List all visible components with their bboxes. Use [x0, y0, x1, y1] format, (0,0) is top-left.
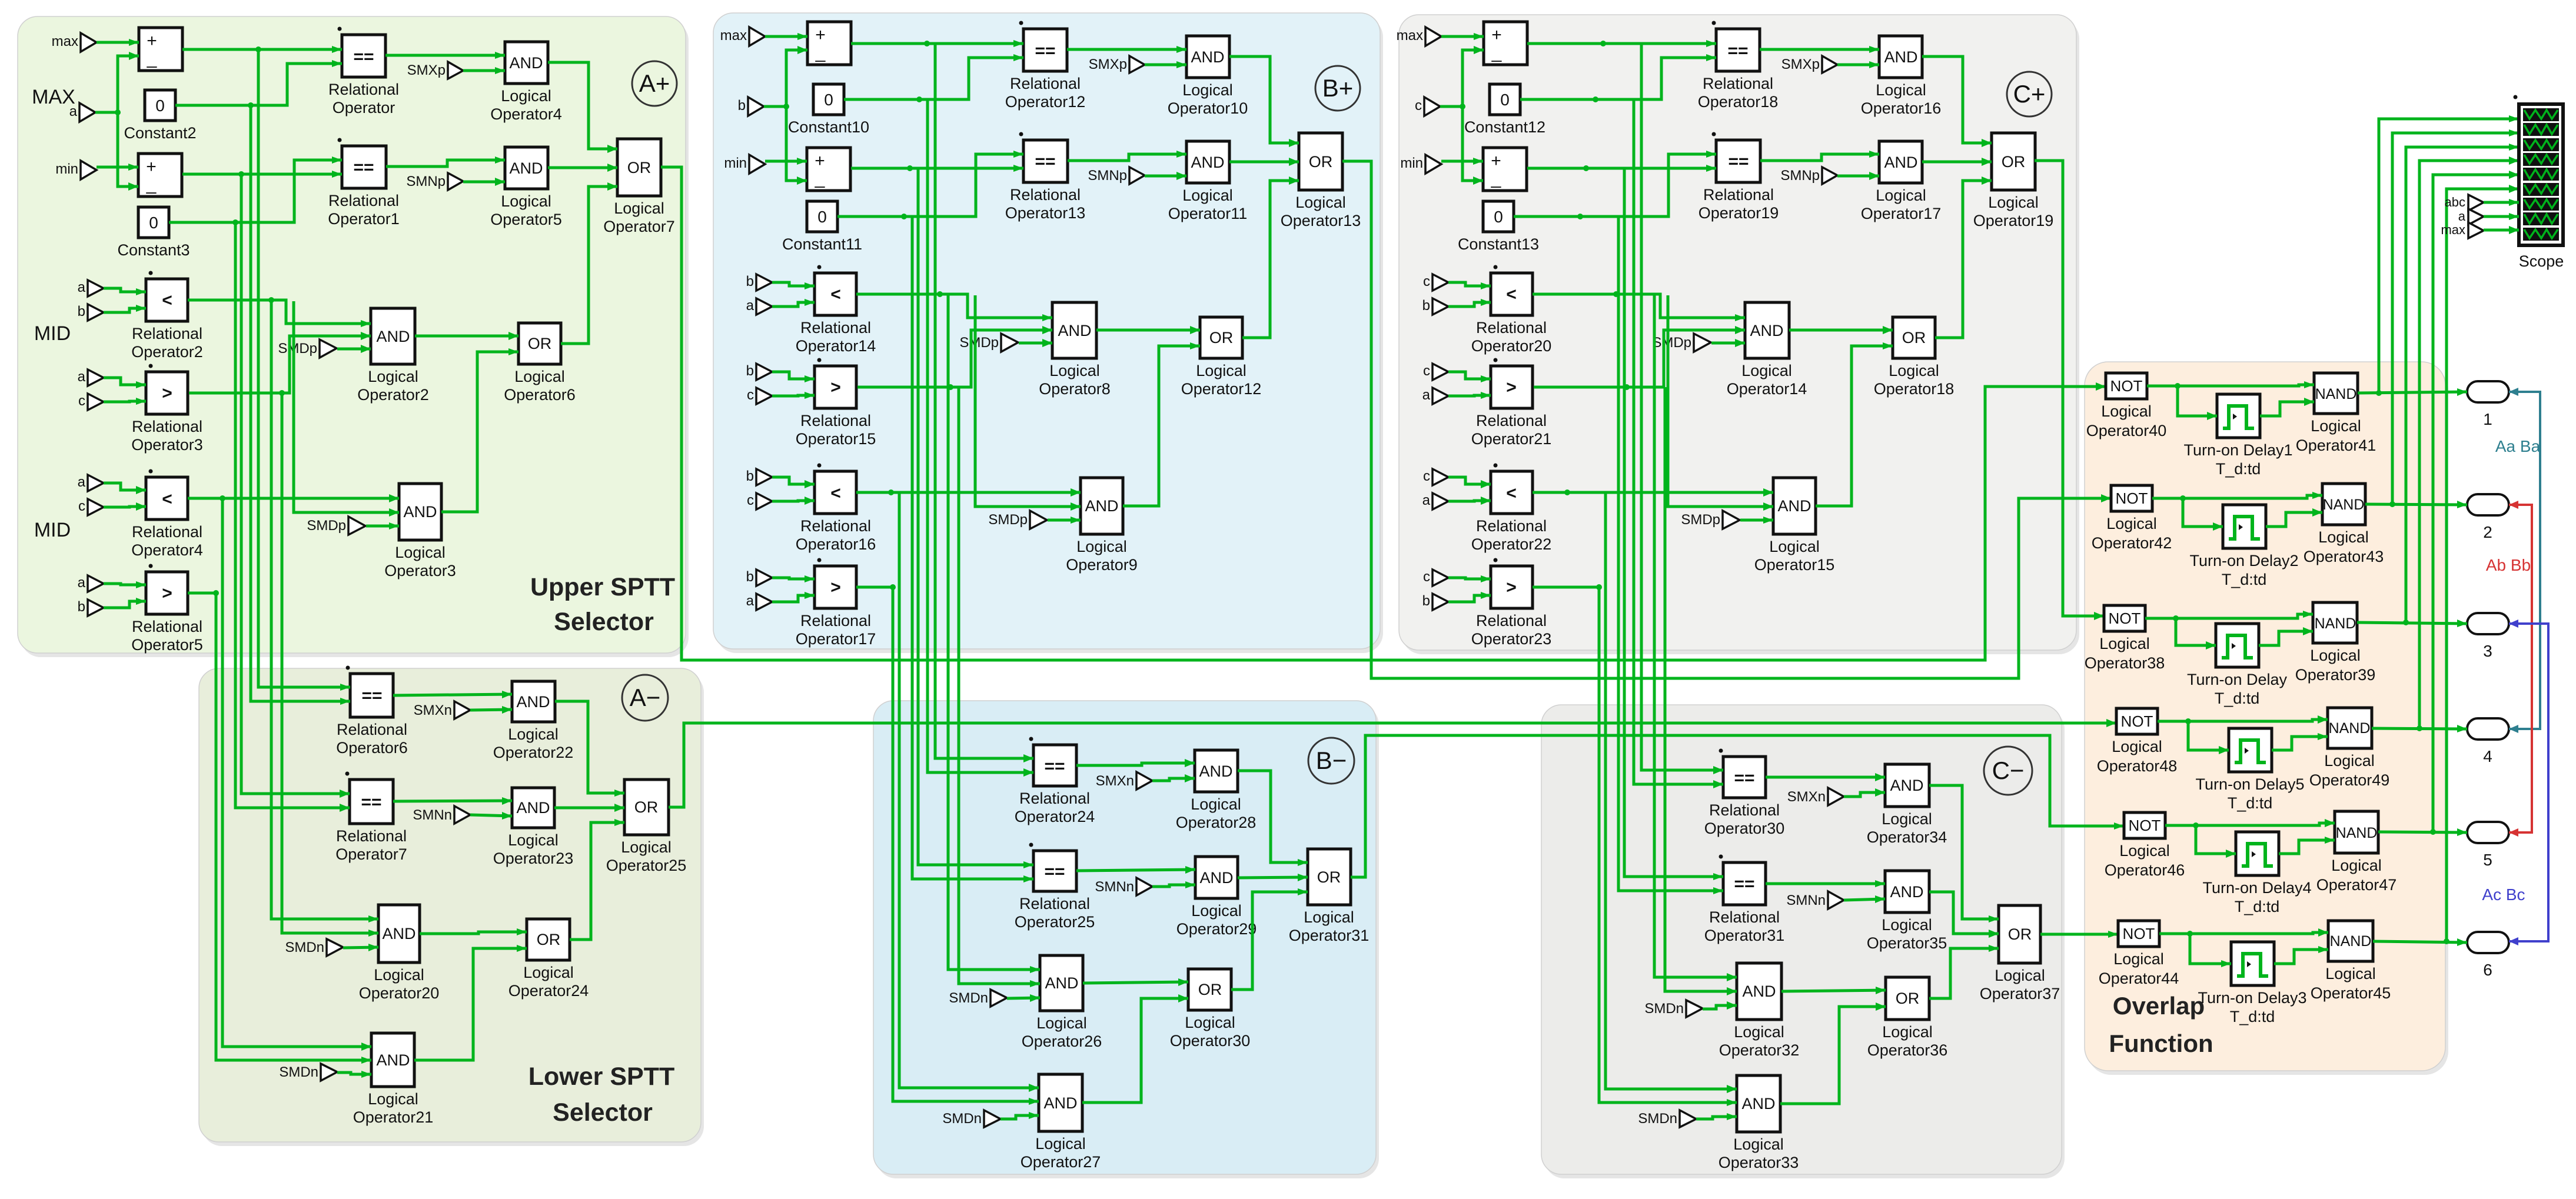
- logical OR (Logical|Operator19): [1992, 133, 2035, 190]
- constant Constant2: [145, 90, 175, 121]
- wire sum2->eq2 in2: [851, 167, 1023, 170]
- svg-text:Operator31: Operator31: [1704, 927, 1785, 944]
- svg-text:>: >: [162, 584, 172, 603]
- wire SMDp->AND mid: [337, 348, 371, 351]
- svg-text:Logical: Logical: [374, 966, 424, 984]
- wire c split: [1440, 50, 1484, 106]
- wire: [1448, 595, 1491, 602]
- SMXn source triangle (A-): [454, 701, 470, 719]
- input triangle b (row 3 B+): [756, 469, 772, 485]
- wire eq2->AND: [1068, 154, 1186, 161]
- logical AND (Logical|Operator23): [512, 788, 554, 828]
- relational operator > (Relational|Operator21): [1491, 366, 1533, 408]
- svg-text:NOT: NOT: [2121, 712, 2153, 730]
- svg-text:OR: OR: [1317, 868, 1341, 886]
- relational operator > (Relational|Operator17): [815, 566, 856, 608]
- svg-text:AND: AND: [1777, 497, 1811, 515]
- svg-text:Upper SPTT: Upper SPTT: [530, 573, 675, 601]
- output port 4: [2467, 718, 2509, 740]
- svg-text:Aa Ba: Aa Ba: [2495, 437, 2541, 455]
- svg-text:SMDn: SMDn: [1644, 1001, 1684, 1017]
- logical OR (Logical|Operator12): [1200, 317, 1242, 358]
- logical NAND (Logical Operator49): [2328, 708, 2372, 748]
- svg-text:AND: AND: [1890, 777, 1923, 794]
- svg-text:max: max: [720, 28, 747, 44]
- wire: [772, 302, 815, 307]
- wire: [1448, 477, 1491, 484]
- svg-text:Logical: Logical: [1304, 908, 1354, 926]
- logical OR (Logical|Operator7): [617, 139, 661, 196]
- wire bundle riser x=2811: [1654, 294, 1737, 977]
- svg-text:Operator17: Operator17: [796, 630, 876, 648]
- svg-text:+: +: [815, 25, 826, 45]
- wire NAND->scope riser 4: [2419, 161, 2519, 728]
- svg-text:>: >: [1506, 378, 1517, 397]
- logical OR (Logical|Operator24): [527, 919, 570, 960]
- svg-text:Operator28: Operator28: [1176, 814, 1257, 831]
- wire b split: [764, 50, 807, 106]
- wire relop4 -> AND3: [188, 497, 399, 500]
- svg-text:Operator16: Operator16: [796, 535, 876, 553]
- input triangle c (row 2 B+): [756, 388, 772, 404]
- svg-text:Ab Bb: Ab Bb: [2486, 556, 2531, 574]
- wire OR6->OR in3: [1935, 181, 1992, 338]
- svg-text:SMDn: SMDn: [279, 1064, 318, 1080]
- svg-text:AND: AND: [1043, 1094, 1077, 1112]
- svg-text:SMDn: SMDn: [949, 990, 988, 1006]
- wire relop< -> AND mid: [1533, 294, 1745, 318]
- feedback wire Aa Ba (teal, port1-port4): [2509, 392, 2540, 729]
- svg-text:>: >: [830, 578, 841, 597]
- svg-text:Operator25: Operator25: [1015, 913, 1095, 931]
- wire SMXp->AND: [1145, 64, 1186, 66]
- svg-text:Operator: Operator: [333, 99, 395, 116]
- svg-text:Operator14: Operator14: [796, 337, 876, 355]
- wire bundle riser x=2760: [1624, 168, 1723, 877]
- logical OR (Logical|Operator13): [1299, 133, 1342, 190]
- svg-text:==: ==: [361, 686, 382, 705]
- svg-text:Operator44: Operator44: [2099, 970, 2179, 987]
- svg-text:Operator4: Operator4: [131, 541, 203, 559]
- svg-text:AND: AND: [1884, 154, 1917, 171]
- svg-text:2: 2: [2483, 523, 2492, 541]
- wire A- OR25 -> NOT row4: [669, 723, 2116, 807]
- wire relop< -> AND mid: [856, 294, 1052, 318]
- wire delay->NAND: [2272, 737, 2328, 750]
- relational operator < (Relational|Operator2): [146, 279, 188, 321]
- wire: [104, 378, 146, 385]
- wire relop4 -> AND3: [1533, 491, 1773, 494]
- wire SMNn->AND2: [1152, 885, 1195, 887]
- logical AND 3-in (Logical|Operator32): [1737, 963, 1781, 1020]
- wire a->sum2 lower: [786, 106, 807, 181]
- svg-text:Logical: Logical: [2119, 842, 2170, 860]
- svg-text:SMDp: SMDp: [1681, 512, 1720, 528]
- svg-text:Operator48: Operator48: [2097, 757, 2178, 775]
- svg-text:a: a: [746, 593, 754, 609]
- svg-text:_: _: [147, 49, 158, 68]
- wire ANDL1->ORL: [1781, 990, 1886, 991]
- svg-text:Operator13: Operator13: [1281, 212, 1361, 229]
- wire a->sum2 lower: [118, 112, 138, 186]
- wire sum1->eq1: [1527, 42, 1716, 45]
- svg-text:b: b: [78, 599, 85, 615]
- wire eq2->AND2: [393, 801, 512, 801]
- svg-text:NAND: NAND: [2329, 720, 2371, 737]
- svg-text:==: ==: [353, 47, 374, 66]
- input port triangle max (B+): [749, 27, 765, 46]
- svg-text:OR: OR: [537, 931, 561, 948]
- wire a->scope: [2484, 215, 2519, 218]
- svg-text:AND: AND: [1191, 154, 1224, 171]
- svg-text:B−: B−: [1316, 747, 1347, 774]
- input triangle a (row 1 A+): [88, 280, 104, 297]
- svg-text:0: 0: [817, 208, 827, 226]
- wire relop< -> AND mid: [188, 300, 371, 324]
- svg-text:Relational: Relational: [1476, 412, 1547, 429]
- wire SMXp->AND: [463, 69, 505, 72]
- input triangle c (row 1 C+): [1432, 274, 1448, 291]
- svg-text:SMXp: SMXp: [407, 62, 446, 78]
- svg-text:a: a: [2458, 209, 2466, 224]
- wire SMDn->ANDL1: [1703, 1005, 1737, 1009]
- svg-text:NAND: NAND: [2315, 615, 2356, 632]
- input triangle a (row 1 B+): [756, 298, 772, 315]
- logical NAND (Logical Operator39): [2313, 602, 2357, 643]
- wire feed AND3 in2: [1668, 295, 1773, 507]
- svg-text:0: 0: [155, 96, 165, 115]
- wire bundle riser x=439: [258, 49, 350, 687]
- svg-text:Operator30: Operator30: [1704, 820, 1785, 837]
- svg-text:a: a: [78, 369, 86, 385]
- svg-text:T_d:td: T_d:td: [2228, 794, 2273, 812]
- svg-text:Operator35: Operator35: [1867, 934, 1947, 952]
- section badge B+: [1315, 66, 1360, 111]
- svg-text:Turn-on Delay5: Turn-on Delay5: [2195, 775, 2304, 793]
- wire SMXn->AND: [470, 710, 512, 710]
- svg-text:>: >: [162, 384, 172, 403]
- svg-text:Operator37: Operator37: [1980, 985, 2060, 1003]
- input port triangle max (A+): [81, 33, 97, 52]
- svg-text:NOT: NOT: [2116, 489, 2148, 507]
- logical AND (Logical|Operator11): [1186, 141, 1229, 183]
- wire eq->AND: [1076, 763, 1195, 765]
- wire AND->OR in1: [1922, 56, 1992, 143]
- svg-text:Logical: Logical: [2318, 528, 2369, 546]
- wire min->sum2: [1441, 160, 1483, 163]
- svg-text:Operator13: Operator13: [1005, 204, 1086, 222]
- input triangle b (row 4 B+): [756, 569, 772, 586]
- svg-text:Ac Bc: Ac Bc: [2482, 885, 2525, 904]
- input triangle a (row 3 C+): [1432, 493, 1448, 509]
- wire NAND->port: [2358, 392, 2467, 393]
- svg-text:Selector: Selector: [553, 1098, 653, 1127]
- svg-text:Operator38: Operator38: [2085, 654, 2165, 672]
- wire A+ OR7 -> NOT row1: [661, 167, 2106, 660]
- svg-text:Operator24: Operator24: [508, 982, 589, 1000]
- wire AND2->OR in2: [554, 807, 624, 810]
- svg-text:+: +: [146, 157, 157, 176]
- svg-text:B+: B+: [1322, 74, 1354, 102]
- svg-text:<: <: [830, 285, 841, 304]
- svg-text:Turn-on Delay1: Turn-on Delay1: [2183, 441, 2292, 459]
- logical NAND (Logical Operator47): [2335, 811, 2378, 853]
- input triangle a (row 2 C+): [1432, 388, 1448, 404]
- wire SMDn2->ANDL2: [1696, 1117, 1737, 1119]
- svg-text:AND: AND: [382, 925, 416, 942]
- wire NOT->delay: [2178, 386, 2217, 416]
- wire: [772, 595, 815, 602]
- svg-text:max: max: [2441, 222, 2465, 237]
- wire: [104, 584, 146, 585]
- svg-text:Relational: Relational: [328, 81, 399, 98]
- svg-text:Relational: Relational: [336, 827, 407, 845]
- svg-text:a: a: [1422, 387, 1431, 403]
- svg-text:Operator47: Operator47: [2316, 876, 2397, 894]
- constant Constant10: [813, 84, 844, 115]
- SMDn source triangle upper (A-): [327, 939, 343, 956]
- svg-text:Operator36: Operator36: [1867, 1041, 1948, 1059]
- svg-text:==: ==: [1044, 862, 1065, 881]
- svg-text:Logical: Logical: [2106, 515, 2157, 532]
- svg-text:Operator23: Operator23: [1471, 630, 1552, 648]
- turn-on delay block (Turn-on Delay2): [2223, 505, 2266, 548]
- SMDp source triangle upper (B+): [1001, 334, 1018, 352]
- input port triangle min (C+): [1425, 155, 1441, 174]
- SMXp source triangle (A+): [448, 62, 463, 79]
- svg-text:MID: MID: [34, 519, 71, 541]
- svg-text:MAX: MAX: [32, 86, 75, 108]
- logical NOT (Logical Operator38): [2104, 605, 2145, 631]
- svg-text:NAND: NAND: [2315, 386, 2357, 402]
- svg-text:Operator45: Operator45: [2311, 984, 2391, 1002]
- logical NAND (Logical Operator45): [2328, 921, 2373, 961]
- wire SMNn->AND2: [470, 815, 512, 816]
- svg-text:Logical: Logical: [1295, 194, 1346, 211]
- svg-text:Constant11: Constant11: [782, 235, 862, 253]
- svg-text:Operator22: Operator22: [1471, 535, 1552, 553]
- svg-text:AND: AND: [1058, 322, 1091, 339]
- wire NAND->scope riser 5: [2433, 175, 2519, 832]
- wire min->sum2: [97, 166, 138, 169]
- relational == (Relational|Operator31): [1723, 862, 1766, 905]
- panel C- (gray): [1544, 709, 2065, 1178]
- svg-text:Logical: Logical: [2113, 950, 2164, 968]
- svg-text:abc: abc: [2445, 195, 2465, 209]
- panel C+ (light gray): [1402, 19, 2079, 654]
- svg-text:_: _: [146, 175, 157, 194]
- wire NAND->port: [2373, 941, 2467, 942]
- svg-text:c: c: [747, 492, 754, 508]
- svg-text:b: b: [746, 468, 754, 484]
- logical AND 3-in (Logical|Operator26): [1040, 955, 1083, 1011]
- logical OR (Logical|Operator25): [624, 780, 669, 835]
- SMNn source triangle (B-): [1136, 878, 1152, 895]
- wire eq1->AND: [1760, 48, 1879, 51]
- relational operator == (Relational|Operator19): [1716, 140, 1760, 182]
- svg-text:Relational: Relational: [800, 612, 871, 630]
- source triangle abc: [2468, 195, 2484, 211]
- wire OR6->OR in3: [561, 186, 617, 344]
- wire eq2->AND: [1760, 154, 1879, 161]
- svg-text:c: c: [1423, 274, 1430, 289]
- svg-text:SMDp: SMDp: [1652, 335, 1691, 351]
- svg-text:max: max: [1397, 28, 1423, 44]
- svg-text:NOT: NOT: [2109, 610, 2141, 627]
- input port triangle b (B+): [748, 97, 764, 116]
- svg-text:==: ==: [1734, 768, 1754, 788]
- logical AND (Logical|Operator29): [1195, 857, 1238, 898]
- SMDp source triangle lower (C+): [1723, 511, 1740, 529]
- wire NAND->scope riser 3: [2406, 147, 2519, 622]
- svg-text:==: ==: [353, 158, 374, 177]
- svg-text:NAND: NAND: [2336, 825, 2378, 841]
- svg-text:Logical: Logical: [1185, 1014, 1235, 1031]
- wire SMDn2->ANDL2: [337, 1073, 371, 1074]
- svg-text:Relational: Relational: [800, 412, 871, 429]
- wire NAND->port: [2357, 622, 2467, 624]
- logical OR (Logical|Operator31): [1308, 849, 1351, 905]
- svg-text:Logical: Logical: [1191, 902, 1242, 920]
- sum block 2 (C+): [1483, 148, 1527, 191]
- wire NAND->scope riser 1: [2379, 119, 2519, 393]
- svg-text:a: a: [78, 474, 86, 490]
- svg-text:Operator8: Operator8: [1039, 380, 1111, 398]
- input port triangle min (A+): [81, 161, 97, 179]
- svg-text:Operator20: Operator20: [1471, 337, 1552, 355]
- svg-text:SMNn: SMNn: [1095, 879, 1134, 895]
- svg-text:Logical: Logical: [1049, 362, 1100, 379]
- logical AND (Logical|Operator8): [1052, 302, 1096, 358]
- svg-text:Operator27: Operator27: [1021, 1153, 1101, 1171]
- svg-text:_: _: [1491, 169, 1502, 188]
- panel A- Lower SPTT Selector (olive green): [202, 672, 704, 1146]
- svg-text:Logical: Logical: [368, 368, 418, 385]
- input triangle c (row 2 A+): [88, 394, 104, 410]
- logical OR (Logical|Operator18): [1893, 317, 1935, 358]
- output port 3: [2467, 613, 2509, 634]
- logical AND (Logical|Operator15): [1773, 478, 1816, 534]
- wire: [104, 507, 146, 507]
- logical AND (Logical|Operator10): [1186, 36, 1229, 78]
- wire relop> -> AND mid in2: [189, 336, 371, 393]
- svg-text:AND: AND: [1191, 48, 1224, 66]
- wire delay->NAND: [2259, 631, 2313, 645]
- wire eq2->AND2: [1076, 870, 1195, 871]
- svg-text:min: min: [724, 155, 747, 171]
- wire NOT->delay: [2183, 498, 2223, 527]
- svg-text:Logical: Logical: [501, 87, 551, 105]
- logical AND (Logical|Operator5): [505, 147, 548, 189]
- wire AND->OR in2: [1229, 161, 1299, 164]
- svg-text:SMXn: SMXn: [1787, 789, 1826, 805]
- wire const3->eq2 in1: [169, 160, 342, 222]
- svg-text:Operator40: Operator40: [2086, 422, 2167, 439]
- wire: [772, 395, 815, 396]
- input triangle b (row 4 C+): [1432, 594, 1448, 610]
- input triangle c (row 3 B+): [756, 493, 772, 509]
- wire AND->OR in2: [1922, 161, 1992, 164]
- relational == (Relational|Operator7): [350, 780, 393, 824]
- source triangle a: [2468, 209, 2484, 225]
- svg-text:==: ==: [1727, 41, 1748, 61]
- svg-text:T_d:td: T_d:td: [2222, 571, 2267, 588]
- wire delay->NAND: [2266, 512, 2322, 527]
- svg-text:Turn-on Delay3: Turn-on Delay3: [2198, 989, 2306, 1007]
- wire bundle riser x=1576: [928, 99, 1033, 772]
- logical AND (Logical|Operator3): [399, 484, 441, 540]
- wire SMNp->AND: [1837, 175, 1879, 178]
- logical AND (Logical|Operator22): [512, 681, 555, 722]
- relational operator == (Relational|Operator18): [1716, 29, 1760, 71]
- svg-text:Relational: Relational: [1476, 612, 1547, 630]
- svg-text:Logical: Logical: [614, 199, 664, 217]
- svg-text:Relational: Relational: [1019, 790, 1090, 807]
- svg-text:Relational: Relational: [1703, 186, 1774, 204]
- relational operator < (Relational|Operator4): [146, 477, 188, 519]
- input port triangle min (B+): [749, 155, 765, 174]
- svg-text:Logical: Logical: [1733, 1135, 1784, 1153]
- svg-text:Relational: Relational: [1010, 186, 1081, 204]
- svg-text:Logical: Logical: [1196, 362, 1247, 379]
- svg-text:AND: AND: [1085, 497, 1118, 515]
- svg-text:Logical: Logical: [1876, 81, 1926, 99]
- wire NAND->scope riser 6: [2447, 189, 2519, 941]
- wire: [772, 372, 815, 379]
- logical AND (Logical|Operator17): [1879, 141, 1922, 183]
- svg-text:SMDp: SMDp: [988, 512, 1028, 528]
- relational operator < (Relational|Operator22): [1491, 471, 1533, 514]
- svg-text:+: +: [815, 151, 825, 171]
- wire: [772, 477, 815, 484]
- svg-text:b: b: [746, 569, 754, 585]
- scope block: [2519, 104, 2563, 245]
- input port triangle a (A+): [79, 103, 95, 122]
- svg-text:Logical: Logical: [508, 725, 559, 743]
- svg-text:Relational: Relational: [132, 523, 202, 541]
- logical NOT (Logical Operator46): [2124, 812, 2165, 838]
- constant Constant3: [138, 207, 169, 238]
- wire NOT->delay: [2176, 618, 2216, 645]
- svg-text:NAND: NAND: [2330, 933, 2372, 950]
- logical OR (Logical|Operator30): [1188, 969, 1231, 1010]
- wire ORL->OR in3: [1929, 948, 1999, 998]
- svg-text:Logical: Logical: [368, 1090, 418, 1108]
- svg-text:c: c: [1415, 98, 1422, 114]
- wire bundle riser x=1629: [959, 387, 1040, 984]
- logical NOT (Logical Operator48): [2116, 708, 2158, 734]
- feedback wire Ac Bc (blue, port3-port6): [2509, 624, 2548, 941]
- svg-text:6: 6: [2483, 961, 2492, 979]
- svg-text:T_d:td: T_d:td: [2235, 898, 2280, 915]
- svg-text:SMNn: SMNn: [413, 807, 452, 823]
- svg-text:Logical: Logical: [2310, 647, 2361, 664]
- svg-text:OR: OR: [528, 335, 552, 352]
- relational operator < (Relational|Operator14): [815, 273, 856, 315]
- logical NOT (Logical Operator44): [2118, 921, 2159, 947]
- wire relop5 out stub: [856, 586, 895, 589]
- svg-text:OR: OR: [1902, 329, 1926, 347]
- svg-text:Relational: Relational: [1476, 517, 1547, 535]
- logical OR (Logical|Operator37): [1999, 905, 2040, 963]
- wire: [1448, 501, 1491, 501]
- wire NOT->delay: [2190, 934, 2231, 964]
- svg-text:0: 0: [1494, 208, 1503, 226]
- svg-text:Logical: Logical: [2311, 417, 2361, 435]
- svg-text:AND: AND: [1741, 1095, 1775, 1113]
- wire bundle riser x=1560: [918, 168, 1033, 865]
- svg-text:Relational: Relational: [337, 721, 407, 738]
